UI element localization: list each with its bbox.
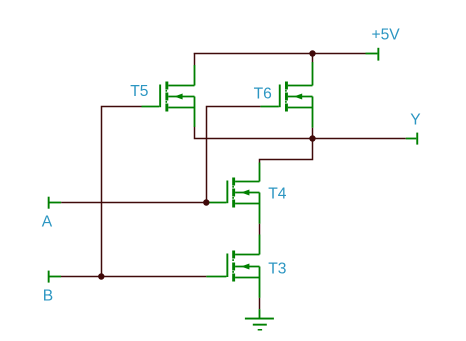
svg-text:A: A — [42, 214, 53, 231]
wire T6 source to output — [312, 128, 314, 139]
svg-text:Y: Y — [410, 112, 421, 129]
svg-text:T5: T5 — [130, 83, 149, 100]
wire +5V rail — [194, 53, 366, 55]
power terminal +5V — [366, 48, 380, 61]
node output junction — [309, 135, 315, 141]
svg-text:T4: T4 — [268, 185, 287, 202]
transistor T5 — [142, 65, 195, 127]
wire T4 source to T3 drain — [259, 224, 261, 235]
wire T3 source to ground — [259, 298, 261, 309]
output terminal Y — [406, 133, 418, 145]
ground — [245, 309, 274, 330]
node A junction — [203, 199, 209, 205]
wire T6 drain stub — [312, 54, 314, 63]
svg-text:B: B — [43, 287, 53, 304]
wire A to T6 gate — [207, 107, 261, 203]
input terminal A — [48, 197, 62, 209]
wire T5 source to output — [195, 127, 406, 139]
svg-text:T3: T3 — [268, 260, 286, 277]
node B junction — [98, 273, 104, 279]
transistor T6 — [260, 62, 312, 128]
wire B net — [61, 276, 206, 278]
input terminal B — [48, 271, 61, 283]
svg-text:T6: T6 — [254, 85, 272, 102]
wire output to T4 drain jog — [260, 139, 313, 163]
node junction on +5V rail — [309, 50, 315, 56]
transistor T4 — [206, 163, 259, 224]
svg-text:+5V: +5V — [372, 27, 401, 44]
transistor T3 — [206, 235, 259, 298]
wire A net — [61, 202, 206, 204]
wire T5 drain stub — [194, 54, 196, 66]
wire B to T5 gate — [102, 107, 142, 277]
